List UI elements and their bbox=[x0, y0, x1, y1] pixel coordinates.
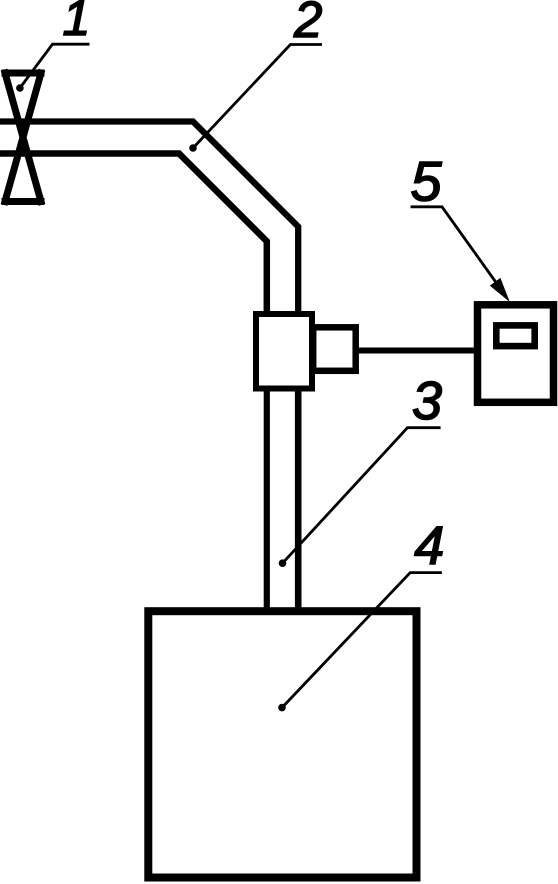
indicator unit U5 (box with display) bbox=[478, 305, 554, 403]
svg-text:5: 5 bbox=[411, 150, 443, 213]
svg-text:2: 2 bbox=[293, 0, 322, 48]
leader line for label 4 with dot bbox=[282, 573, 442, 708]
leader line for label 5 bbox=[411, 207, 506, 295]
wire: cable from sensor plug to indicator unit 5 bbox=[355, 348, 477, 354]
wire: duct lower line (horizontal, 45-degree bend, vertical into junction) bbox=[0, 154, 267, 316]
junction box (sensor body) bbox=[256, 314, 312, 389]
leader line for label 2 with dot bbox=[193, 45, 322, 149]
svg-text:3: 3 bbox=[412, 371, 442, 431]
wire: sampling tube right line (junction to chamber 4) bbox=[295, 388, 302, 612]
display window of indicator unit bbox=[496, 325, 534, 346]
chamber 4 (large box) bbox=[148, 611, 416, 877]
leader line for label 1 with dot bbox=[20, 44, 90, 88]
fan symbol (bowtie), item 1 bbox=[5, 73, 41, 202]
svg-text:4: 4 bbox=[414, 516, 444, 576]
wire: sampling tube left line (junction to chamber 4) bbox=[264, 388, 270, 612]
svg-text:1: 1 bbox=[63, 0, 91, 46]
sensor plug (small box on right of junction) bbox=[313, 327, 356, 371]
leader line for label 3 with dot bbox=[283, 428, 441, 564]
wire: duct upper line (horizontal, 45-degree bend, vertical into junction) bbox=[0, 122, 298, 316]
arrowhead of leader 5 bbox=[490, 278, 510, 302]
